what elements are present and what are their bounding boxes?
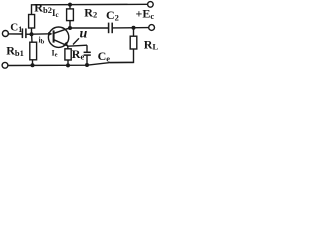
junction node base: [30, 32, 34, 36]
wire Rb2 to base node: [31, 28, 33, 34]
terminal input: [2, 31, 8, 37]
terminal ground (input common): [2, 62, 8, 68]
junction node top rail / Rc: [68, 3, 72, 7]
node emitter: [67, 46, 70, 49]
resistor Re: [65, 49, 71, 60]
wire top rail: [32, 4, 148, 14]
wire collector column: [69, 21, 71, 28]
junction node Rb1 ground: [31, 63, 35, 67]
terminal output: [149, 25, 155, 31]
wire input to C1: [8, 33, 22, 35]
junction node output / RL: [132, 26, 136, 30]
wire Rb1 to ground rail: [32, 60, 34, 66]
arrow base current ib: [48, 32, 52, 36]
wire ground rail: [8, 62, 134, 65]
junction node Ce ground: [85, 63, 89, 67]
wire C2 to output: [112, 27, 149, 29]
wire base node to Rb1: [31, 34, 33, 42]
svg-text:u: u: [80, 27, 88, 42]
capacitor C2: [109, 23, 113, 34]
resistor RL: [130, 36, 137, 49]
resistor Rb1: [30, 42, 37, 60]
transistor Q1: [48, 27, 68, 47]
wire Re to ground rail: [67, 60, 69, 66]
wire RL to ground rail: [110, 49, 134, 63]
wire base: [32, 33, 51, 35]
capacitor C1: [22, 28, 26, 38]
resistor Rb2: [29, 15, 35, 29]
capacitor Ce: [86, 45, 88, 52]
wire emitter to Ce: [68, 45, 87, 46]
wire RL column top: [133, 28, 135, 36]
terminal +Ec: [148, 2, 154, 8]
arrow emitter: [63, 42, 68, 47]
wire collector to C2: [70, 27, 108, 29]
junction node Re ground: [66, 63, 70, 67]
wire C1 to base node: [26, 33, 32, 35]
resistor Rc (label R2): [67, 9, 74, 21]
junction node collector: [68, 26, 72, 30]
label leader line for u: [73, 38, 79, 44]
wire Rc to top rail: [69, 5, 71, 9]
